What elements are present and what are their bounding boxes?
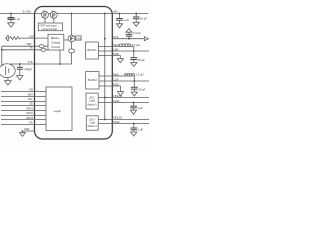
wire internal SYS bus vertical [104,14,106,120]
node dot VIN-bus [104,13,106,15]
svg-text:2.2 µH: 2.2 µH [136,72,144,76]
ground C8 [130,110,136,114]
svg-text:10 µF: 10 µF [138,87,145,91]
ground PGND1 [117,59,123,63]
node dot VIN-C1 [10,13,12,15]
arrow SYS out [144,37,148,41]
svg-text:current limiter: current limiter [42,27,58,31]
node dot VIN-charger [71,13,73,15]
svg-text:Logic: Logic [54,109,62,113]
svg-text:2.2 µH: 2.2 µH [132,43,140,47]
svg-text:VINLS1: VINLS1 [113,94,123,98]
node dot VOUT2 [133,80,135,82]
GPIO pin wires into logic [1,92,46,125]
svg-text:BUCK1: BUCK1 [87,48,97,52]
wire GND stub [21,130,35,132]
pin stubs BUCK1 to edge [98,47,112,56]
wire charger output to rail [59,50,61,64]
ground PGND2 [117,92,123,96]
wire Q2 to OVP box [53,18,55,23]
wire VOUT2 [112,80,149,82]
capacitor C3 1uF VIN right [116,14,123,24]
wire VOUT1 [112,50,149,52]
wire L2 to output node [133,76,135,87]
svg-text:Switch 2: Switch 2 [87,125,97,128]
battery BT1 pack [0,64,15,78]
svg-text:Battery: Battery [51,36,60,40]
node dot TS junction [1,49,3,51]
capacitor C6 10uF buck1 [130,58,137,63]
svg-text:SYS: SYS [76,37,81,40]
AC adaptor plug J1 [5,35,9,41]
svg-text:SYS: SYS [28,62,33,64]
node dot C5 [128,38,130,40]
svg-text:VINLS2: VINLS2 [113,116,123,120]
svg-text:Charge: Charge [51,40,60,44]
capacitor C4 10uF VIN right [133,14,140,23]
svg-text:1 µF: 1 µF [15,19,20,21]
ground left GND pin [20,131,26,136]
wire TS line [2,49,48,51]
wire VLS1 upper [112,97,149,99]
wire BAT oval to battery rail [10,53,72,64]
inductor L1 2.2uH [112,44,134,47]
ground C7 [131,92,137,96]
block BUCK2 [86,72,99,89]
block LDO load switch 1 [86,93,98,109]
OVP FET Q1 [42,12,49,19]
svg-text:LDO /: LDO / [89,96,96,99]
capacitor C1 1uF at VIN left [8,14,15,23]
inductor L2 2.2uH [112,74,134,76]
pin oval BAT [69,49,75,53]
wire VLS2 output [112,123,149,125]
svg-text:1.8V: 1.8V [113,47,119,51]
svg-text:Load: Load [90,122,96,125]
node dot charger output [59,63,61,65]
svg-text:1 µF: 1 µF [23,69,28,71]
svg-text:GPO3: GPO3 [26,117,33,120]
node dot VOUT1 [133,50,135,52]
svg-text:PG: PG [29,122,33,125]
block Logic [46,87,72,131]
capacitor C2 battery 1uF [17,64,23,76]
pin stubs LS2 to edge [98,120,112,124]
node dot LS2 cap [133,123,135,125]
svg-text:GPO2: GPO2 [26,112,33,115]
svg-text:LDO /: LDO / [89,119,96,122]
charger FET Q3 [68,35,75,42]
svg-text:1 µF: 1 µF [123,18,129,22]
ground C5 pointing up [126,29,132,33]
block LDO load switch 2 [86,116,98,130]
capacitor C7 10uF buck2 [131,87,138,92]
svg-text:10 µF: 10 µF [138,58,145,62]
wire VLS2 upper [112,119,149,121]
svg-text:OUT: OUT [29,37,34,39]
svg-text:3.3 µF: 3.3 µF [133,31,141,35]
pin oval ISET [39,45,44,48]
svg-text:VLS2: VLS2 [113,120,120,124]
capacitor C9 1uF LS2 [131,124,138,133]
svg-text:HD: HD [29,89,33,92]
svg-text:Load: Load [89,100,95,103]
pin oval TS [41,48,46,51]
capacitor C5 1uF on SYS (above line) [126,32,132,39]
node dot battery rail at IC edge [34,63,36,65]
block battery charge control [48,34,64,50]
ground C4 [133,22,139,26]
ground battery [5,78,12,85]
svg-text:TS: TS [29,48,32,50]
svg-text:SYS: SYS [113,35,119,39]
node dot bus SYS [104,38,106,40]
label SYS node box [75,36,81,40]
svg-text:GND: GND [24,128,30,131]
wire charger vertical VIN to FET [71,14,73,36]
svg-text:1 µF: 1 µF [138,127,144,131]
OVP FET Q2 [50,12,57,19]
block OVP input current limiter [38,23,62,31]
IC U1 outline [35,7,113,140]
wire L1 to output node [133,47,135,58]
svg-text:GPO1: GPO1 [26,107,33,110]
wire VIN horizontal rail [0,13,148,15]
svg-text:SDA: SDA [28,93,33,96]
ground C3 [116,24,122,28]
node dot battery rail cap junction [19,63,21,65]
wire battery sense vertical [1,46,3,67]
wire Q1 to OVP box [44,18,46,23]
node dot bus LS1 [104,97,106,99]
svg-text:SCL: SCL [28,98,33,101]
svg-text:ISET: ISET [27,44,33,46]
node dot LS1 cap [133,102,135,104]
svg-text:VIN: VIN [113,10,118,14]
wire VLS1 output [112,102,149,104]
svg-text:OVP and input: OVP and input [40,24,57,28]
svg-text:1.2V: 1.2V [113,77,119,81]
wire ISET line [2,45,48,47]
wire PGND2 stub [112,86,120,92]
wire PGND1 stub [112,56,120,59]
block BUCK1 [86,42,99,59]
pin stubs LS1 to edge [98,98,112,103]
svg-text:VLS1: VLS1 [113,99,120,103]
svg-text:10 µF: 10 µF [140,17,147,21]
node dot C4 [135,13,137,15]
node dot bus LS2 [104,119,106,121]
ground for C2 [17,76,23,80]
svg-text:Control: Control [51,45,60,49]
ground C6 [131,62,137,66]
pin stubs BUCK2 to edge [99,76,112,86]
ground C9 [131,132,137,136]
svg-text:SD: SD [29,103,33,106]
svg-text:Switch 1: Switch 1 [87,103,97,106]
node dot C3 [119,13,121,15]
capacitor C8 1uF LS1 [130,103,137,111]
wire charge box to FET [64,39,68,41]
resistor R1 [10,37,49,40]
svg-text:5 V VIN: 5 V VIN [23,11,31,13]
wire FET to BAT oval [71,42,73,49]
ground for C1 [8,23,15,27]
svg-text:1 µF: 1 µF [137,106,143,110]
wire SYS output [112,38,144,40]
svg-text:BUCK2: BUCK2 [88,78,98,82]
